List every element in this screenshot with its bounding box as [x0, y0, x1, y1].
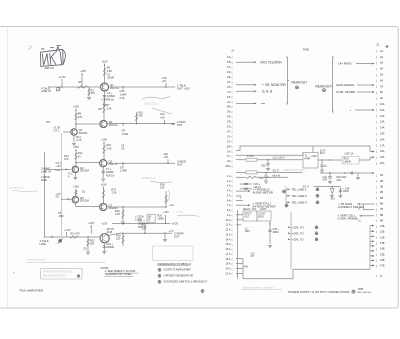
svg-text:TEL LINE-3: TEL LINE-3 — [292, 200, 308, 204]
reference symbols heading — [158, 262, 192, 266]
components above output wire — [138, 219, 147, 234]
label Q6 — [80, 196, 90, 203]
svg-text:(: ( — [232, 194, 233, 198]
tel line output group — [286, 187, 319, 205]
small cluster left stage4 — [58, 211, 64, 218]
svg-text:+15V: +15V — [163, 211, 169, 214]
svg-text:C3: C3 — [107, 72, 111, 76]
svg-text:(: ( — [232, 125, 233, 129]
svg-text:7 A: 7 A — [227, 204, 231, 207]
tr main connect frame — [338, 202, 374, 210]
svg-text:LINE: LINE — [40, 242, 46, 246]
svg-text:): ) — [376, 114, 377, 118]
svg-text:LM340: LM340 — [344, 161, 352, 164]
lower supply wire right — [320, 172, 375, 174]
svg-text:EXTEND METER: EXTEND METER — [253, 204, 276, 208]
stub cluster — [236, 196, 243, 201]
supply drop R4 to Q1 — [101, 59, 114, 83]
connector J2 pin column — [376, 49, 385, 278]
svg-text:+: + — [350, 108, 352, 112]
figure number block — [358, 287, 372, 294]
svg-text:1.0MF: 1.0MF — [120, 170, 127, 173]
svg-text:+8.2V: +8.2V — [172, 222, 179, 226]
title TALK AMPLIFIER — [19, 289, 44, 293]
svg-text:G, R, B: G, R, B — [262, 89, 272, 93]
svg-text:J/B: J/B — [227, 61, 231, 64]
test point tick stage5 — [64, 228, 71, 237]
output label bottom — [169, 229, 184, 238]
svg-text:R4: R4 — [107, 66, 111, 70]
svg-text:J/P: J/P — [227, 116, 231, 119]
output bracket to J2 bottom — [370, 225, 375, 270]
svg-text:): ) — [376, 73, 377, 77]
svg-text:): ) — [376, 138, 377, 142]
svg-text:(: ( — [232, 70, 233, 74]
svg-text:8 A: 8 A — [227, 209, 231, 212]
connector J1 pin column — [225, 56, 232, 276]
svg-text:(: ( — [232, 233, 233, 237]
svg-text:REG: REG — [259, 216, 264, 219]
svg-text:-15 V: -15 V — [302, 184, 309, 188]
fuse F1 row — [236, 155, 303, 161]
svg-text:+15V: +15V — [73, 185, 80, 189]
svg-text:6 A: 6 A — [227, 199, 231, 202]
svg-text:): ) — [376, 120, 377, 124]
svg-text:READOUT: READOUT — [316, 84, 332, 88]
svg-text:47K: 47K — [64, 157, 69, 161]
svg-text:LM20: LM20 — [343, 190, 350, 193]
wire Q3 to Q2 base — [76, 123, 100, 125]
svg-text:): ) — [376, 126, 377, 130]
svg-text:): ) — [376, 150, 377, 154]
plus mark margin — [13, 272, 15, 275]
svg-text:(: ( — [232, 164, 233, 168]
svg-text:2MF: 2MF — [323, 180, 328, 182]
svg-text:J/C: J/C — [227, 66, 231, 69]
switch S1 drop — [320, 160, 328, 172]
svg-text:2N2222 gn: 2N2222 gn — [142, 176, 157, 180]
bypass cluster row1 — [120, 86, 127, 100]
svg-text:14+ RING: 14+ RING — [338, 62, 352, 66]
svg-text:): ) — [376, 179, 377, 183]
svg-text:R16 1K: R16 1K — [106, 173, 115, 177]
label J2 — [376, 43, 379, 47]
wire plus stub to J2 — [350, 108, 375, 112]
svg-text:(: ( — [232, 155, 233, 159]
wire vertical extend meter — [236, 201, 288, 208]
svg-text:1K: 1K — [78, 154, 81, 158]
svg-text:+15V: +15V — [88, 221, 95, 225]
front panel pencil label — [283, 168, 306, 172]
svg-text:REFERENCE SYMBOLS:: REFERENCE SYMBOLS: — [158, 262, 192, 266]
svg-text:2N1304: 2N1304 — [79, 131, 89, 135]
svg-text:5 A: 5 A — [227, 194, 231, 197]
svg-text:21 A: 21 A — [225, 272, 230, 275]
svg-text:J/M: J/M — [226, 106, 230, 109]
svg-text:J/U: J/U — [227, 135, 231, 138]
svg-text:19 A: 19 A — [225, 263, 230, 266]
registration mark top-left — [28, 46, 32, 49]
wire Q1 collector output — [109, 86, 176, 88]
svg-text:): ) — [376, 224, 377, 228]
delay network box — [147, 214, 155, 222]
wire mike input — [45, 168, 71, 170]
supply drop R14 to Q5 — [101, 137, 125, 159]
svg-text:12K: 12K — [78, 115, 83, 119]
svg-text:2A: 2A — [380, 56, 383, 59]
input label stage2 — [46, 121, 61, 133]
svg-text:CONT: CONT — [260, 209, 267, 211]
transistor Q2 — [100, 120, 107, 127]
wire main feed across — [236, 146, 375, 152]
test point +8V tick stage3 — [164, 152, 169, 164]
svg-text:REV 6/58 354: REV 6/58 354 — [358, 292, 372, 294]
label +1V end — [169, 203, 174, 207]
svg-text:): ) — [376, 161, 377, 165]
test point +6V tick — [160, 112, 165, 124]
supply drop R17 to Q7 — [100, 182, 117, 203]
svg-text:J/N: J/N — [227, 111, 231, 114]
supply label output stage — [88, 221, 107, 234]
svg-text:OFFSET GENERATOR: OFFSET GENERATOR — [164, 274, 193, 278]
svg-text:(: ( — [232, 179, 233, 183]
svg-text:-20V: -20V — [330, 198, 335, 200]
svg-text:10K: 10K — [90, 242, 95, 246]
svg-text:+15V: +15V — [73, 104, 80, 108]
svg-text:3A: 3A — [380, 62, 383, 65]
svg-text:J/X: J/X — [227, 150, 231, 153]
svg-text:11A: 11A — [380, 109, 385, 112]
svg-text:2MH: 2MH — [245, 231, 250, 233]
svg-text:VOLTAGES SWITCH 1 READOUT: VOLTAGES SWITCH 1 READOUT — [164, 280, 208, 284]
input bus vertical — [44, 152, 46, 238]
wire Q7 collector output — [107, 206, 166, 208]
svg-text:): ) — [376, 67, 377, 71]
bias divider below wire — [115, 206, 125, 224]
svg-text:1A: 1A — [380, 50, 383, 53]
svg-text:3.3K: 3.3K — [106, 146, 112, 150]
readout bracket left — [286, 57, 289, 104]
svg-text:(: ( — [232, 105, 233, 109]
stub row 3 — [236, 224, 241, 226]
transistor Q1 — [101, 83, 109, 91]
label Q3 — [79, 128, 89, 135]
svg-text:): ) — [376, 202, 377, 206]
volume pot output stage — [58, 238, 64, 244]
wire Q2 collector output — [107, 123, 175, 125]
svg-text:J1: J1 — [231, 49, 234, 53]
stub row 2 into boxes — [236, 219, 243, 221]
readout bracket right — [331, 57, 334, 112]
label +1.5V — [59, 75, 66, 87]
wire COM SPARE to J2 — [336, 90, 375, 94]
svg-text:N: N — [380, 275, 382, 278]
stub row 1 into boxes — [236, 214, 243, 216]
svg-text:4A: 4A — [380, 68, 383, 71]
emitter network C2 R6 — [103, 91, 116, 104]
svg-text:J/T: J/T — [227, 130, 231, 133]
cap on lower supply — [323, 173, 333, 184]
svg-text:(: ( — [232, 199, 233, 203]
transistor Q4 pair — [72, 166, 78, 172]
svg-text:9A: 9A — [380, 97, 383, 100]
svg-text:): ) — [376, 49, 377, 53]
svg-text:( FRONT PANEL ): ( FRONT PANEL ) — [283, 168, 306, 172]
svg-text:+15V: +15V — [101, 137, 108, 141]
svg-text:C22: C22 — [323, 177, 328, 179]
resistor R25 below wire — [116, 233, 124, 247]
svg-text:2B: 2B — [380, 180, 383, 183]
svg-text:(: ( — [232, 65, 233, 69]
svg-text:(: ( — [232, 208, 233, 212]
label -15 volts — [272, 168, 279, 172]
svg-text:+15V: +15V — [100, 182, 107, 186]
svg-text:19A: 19A — [380, 156, 385, 159]
svg-text:17A: 17A — [380, 144, 385, 147]
svg-text:(: ( — [232, 238, 233, 242]
svg-text:+15,+20 V: +15,+20 V — [272, 156, 285, 160]
svg-text:2.2K: 2.2K — [120, 97, 125, 100]
svg-text:15K: 15K — [138, 114, 143, 118]
zener triangle — [330, 189, 336, 201]
emitter network below Q5 — [101, 167, 114, 181]
svg-text:14A: 14A — [380, 127, 385, 130]
label READOUT left — [292, 80, 308, 89]
supply drop R8 to Q3 — [73, 104, 83, 128]
svg-text:J/V: J/V — [227, 140, 231, 143]
label Q8 — [107, 227, 115, 234]
svg-text:(: ( — [232, 90, 233, 94]
wire Q4 to Q5 base — [76, 162, 100, 165]
svg-text:): ) — [376, 247, 377, 251]
ground on output wire — [163, 233, 167, 242]
wire short stub — [236, 102, 265, 104]
regulator wire right — [311, 155, 342, 161]
wire Q5 collector output — [107, 162, 175, 164]
bus vertical left — [237, 210, 239, 279]
svg-text:NK: NK — [41, 47, 45, 51]
svg-text:POWER SUPPLY & OUTPUT CONNECTI: POWER SUPPLY & OUTPUT CONNECTIONS — [288, 290, 349, 294]
svg-text:): ) — [376, 61, 377, 65]
svg-text:OUT: OUT — [177, 123, 183, 127]
wire G R B — [236, 89, 272, 93]
wire bus to Q6 — [61, 198, 72, 200]
wire CR MONITOR — [236, 83, 286, 87]
svg-text:100: 100 — [116, 237, 121, 241]
pencil note bottom left — [26, 258, 105, 263]
svg-text:3.9K: 3.9K — [107, 69, 113, 73]
wire Q8 collector output — [109, 233, 172, 235]
svg-text:J/D: J/D — [227, 71, 231, 74]
svg-text:12 A: 12 A — [225, 229, 230, 232]
svg-text:10A: 10A — [380, 103, 385, 106]
svg-text:(: ( — [232, 228, 233, 232]
svg-text:-15 V: -15 V — [272, 168, 279, 172]
svg-text:+CRL TO: +CRL TO — [292, 237, 305, 241]
svg-text:14B: 14B — [380, 248, 385, 251]
received stamp box — [41, 269, 83, 280]
svg-text:+8V: +8V — [164, 155, 169, 159]
svg-text:C5: C5 — [82, 190, 86, 194]
svg-text:R21 470: R21 470 — [71, 232, 81, 235]
label Q2 2N2712 — [109, 120, 119, 127]
resistor R1 — [78, 86, 88, 88]
title POWER SUPPLY — [288, 290, 355, 294]
svg-text:20 A: 20 A — [225, 268, 230, 271]
wire bus to output stage — [45, 236, 100, 238]
svg-text:13B: 13B — [380, 242, 385, 245]
svg-text:300MF: 300MF — [106, 245, 114, 249]
input attenuator pot — [56, 87, 61, 92]
svg-text:16 A: 16 A — [225, 248, 230, 251]
svg-text:-20V: -20V — [336, 179, 342, 182]
resistor row +6V — [236, 173, 288, 178]
svg-text:): ) — [376, 174, 377, 178]
svg-text:FILT: FILT — [252, 209, 257, 211]
label READOUT right — [316, 84, 332, 91]
svg-text:GRD,SIGNAL: GRD,SIGNAL — [336, 83, 355, 87]
manufacturer logo — [41, 46, 66, 70]
wire 14 RING to J2 — [338, 62, 375, 66]
emitter Q4 to ground — [68, 173, 77, 180]
wire GRD SIGNAL to J2 — [336, 83, 375, 87]
emitter network below Q8 — [102, 242, 114, 254]
svg-text:2N1304: 2N1304 — [80, 169, 90, 173]
svg-text:(: ( — [232, 218, 233, 222]
labels below lower supply — [336, 172, 360, 182]
label J1 — [231, 49, 234, 53]
svg-text:AMP CO: AMP CO — [45, 67, 55, 70]
svg-text:TWB: TWB — [303, 48, 309, 52]
labels above rect boxes — [243, 208, 267, 211]
svg-text:AUDIO METER: AUDIO METER — [253, 190, 273, 194]
svg-text:J/Y: J/Y — [227, 155, 231, 158]
svg-text:60 C: 60 C — [320, 152, 325, 155]
label Q7 2N2712 — [109, 203, 119, 210]
svg-text:10B: 10B — [380, 225, 385, 228]
svg-text:): ) — [376, 213, 377, 217]
transistor Q6 pair — [72, 197, 78, 203]
svg-text:+7V: +7V — [169, 229, 174, 233]
svg-text:): ) — [376, 207, 377, 211]
label Q4 — [80, 166, 90, 173]
cluster under boxes — [244, 229, 255, 269]
reference item offset generator — [158, 274, 193, 278]
label line cord — [320, 150, 326, 156]
power transformer box — [303, 146, 318, 168]
pencil notation row3 — [142, 176, 172, 183]
svg-text:): ) — [376, 230, 377, 234]
label Q5 2N2712 — [109, 159, 119, 166]
svg-text:(: ( — [232, 223, 233, 227]
svg-text:): ) — [376, 219, 377, 223]
emitter Q6 link — [74, 203, 76, 207]
output label 3 MIKE OUT — [177, 159, 186, 166]
tel bracket long vertical — [290, 212, 292, 269]
transistor Q7 — [100, 203, 107, 210]
supply drop to Q6 pair — [56, 185, 86, 199]
capacitor pair cluster — [240, 183, 262, 189]
svg-text:mic level set: mic level set — [9, 186, 24, 190]
svg-text:TWB: TWB — [358, 287, 364, 291]
bus bottom right — [293, 268, 370, 270]
control box — [257, 211, 271, 221]
svg-text:2N2712: 2N2712 — [109, 162, 119, 166]
resistor R5 bias drop — [79, 69, 87, 88]
svg-text:C4 .1: C4 .1 — [54, 129, 61, 133]
svg-text:13A: 13A — [380, 121, 385, 124]
svg-text:(: ( — [232, 204, 233, 208]
collector resistor R10 — [135, 111, 143, 125]
svg-text:(: ( — [232, 150, 233, 154]
svg-text:): ) — [376, 258, 377, 262]
coupling cap stage2 — [63, 131, 71, 133]
page mark circled plus — [201, 289, 204, 292]
svg-text:7A: 7A — [380, 85, 383, 88]
svg-text:+15V: +15V — [80, 69, 86, 73]
svg-text:5B: 5B — [380, 197, 383, 200]
svg-text:8A: 8A — [380, 91, 383, 94]
pencil note right of R18 — [167, 190, 199, 216]
svg-text:11B: 11B — [380, 231, 385, 234]
svg-text:): ) — [376, 79, 377, 83]
svg-text:10K: 10K — [160, 186, 165, 190]
svg-text:1.0MF: 1.0MF — [122, 133, 129, 136]
svg-text:): ) — [376, 236, 377, 240]
svg-text:2N2222 pr: 2N2222 pr — [144, 102, 158, 106]
svg-text:.1MF: .1MF — [58, 214, 64, 218]
svg-text:+15V: +15V — [101, 97, 108, 101]
svg-text:1B: 1B — [380, 174, 383, 177]
svg-text:(: ( — [232, 257, 233, 261]
svg-text:TEL LINE-2: TEL LINE-2 — [292, 194, 308, 198]
svg-text:(: ( — [232, 110, 233, 114]
svg-text:17 A: 17 A — [225, 253, 230, 256]
svg-text:12B: 12B — [380, 236, 385, 239]
svg-text:(: ( — [232, 174, 233, 178]
svg-text:(: ( — [232, 262, 233, 266]
svg-text:NE: NE — [148, 217, 152, 219]
svg-text:1MEG: 1MEG — [158, 218, 165, 221]
output label 1 TALK OUT — [177, 84, 190, 91]
shield bus vertical — [60, 133, 62, 237]
svg-text:): ) — [376, 132, 377, 136]
svg-text:TALK AMPLIFIER: TALK AMPLIFIER — [19, 289, 44, 293]
minus 15 supply branch — [302, 184, 333, 188]
svg-text:43A: 43A — [244, 265, 248, 268]
svg-text:2.2K: 2.2K — [115, 212, 121, 216]
svg-text:(: ( — [232, 85, 233, 89]
svg-text:(: ( — [232, 56, 233, 60]
svg-text:): ) — [376, 253, 377, 257]
svg-text:(: ( — [232, 242, 233, 246]
J1 bottom jog — [236, 259, 243, 279]
vert cell conn frame — [338, 214, 375, 223]
svg-text:): ) — [376, 274, 377, 278]
svg-text:13 A: 13 A — [225, 233, 230, 236]
svg-text:9 A: 9 A — [227, 214, 231, 217]
intermediate rail wire — [112, 222, 179, 226]
test point +4V tick — [162, 76, 168, 88]
svg-text:(: ( — [232, 130, 233, 134]
svg-text:+15V 1A: +15V 1A — [344, 153, 354, 156]
branch cap LM20 — [332, 187, 350, 198]
reference item output amplifier — [158, 268, 190, 272]
collector load resistor right — [160, 183, 167, 208]
reference item voltage switch — [158, 280, 207, 284]
svg-text:+4V: +4V — [162, 79, 167, 83]
filter cap C21 — [259, 172, 268, 183]
